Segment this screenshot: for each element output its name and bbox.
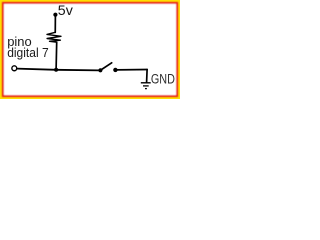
- wire switch to corner: [115, 69, 147, 71]
- svg-text:GND: GND: [151, 72, 175, 88]
- switch S1 lever (open): [101, 63, 112, 70]
- resistor R1: [47, 32, 61, 42]
- node 5v terminal dot: [53, 13, 57, 17]
- node junction dot: [54, 68, 58, 72]
- svg-text:5v: 5v: [58, 2, 73, 18]
- svg-text:digital 7: digital 7: [7, 45, 49, 60]
- switch S1 pole dot: [98, 68, 102, 72]
- wire resistor bottom to junction: [55, 42, 58, 69]
- wire 5v dot to resistor top: [54, 15, 56, 32]
- ground: [141, 82, 151, 84]
- wire corner down to ground: [146, 70, 149, 82]
- terminal pino digital 7: [12, 66, 17, 71]
- switch S1 throw dot: [113, 68, 117, 72]
- wire terminal to junction to switch pole: [17, 69, 99, 71]
